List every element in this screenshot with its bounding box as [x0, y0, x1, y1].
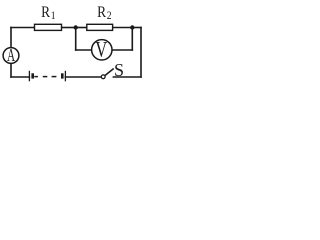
- battery dashed middle (omitted cells): [34, 76, 56, 78]
- svg-text:A: A: [7, 46, 15, 65]
- svg-text:S: S: [114, 60, 124, 80]
- wire left vertical upper: [10, 28, 12, 48]
- label S: [114, 60, 124, 80]
- battery cell right long plate: [64, 71, 66, 82]
- battery cell left short plate: [31, 73, 34, 78]
- wire voltmeter branch left vertical: [75, 28, 77, 51]
- ammeter A1: [3, 46, 19, 65]
- wire left vertical lower: [10, 63, 12, 77]
- node A (left junction dot): [74, 25, 78, 29]
- wire voltmeter branch right vertical: [131, 28, 133, 51]
- wire bottom-right segment: [113, 76, 141, 78]
- switch S lever: [105, 69, 114, 76]
- wire voltmeter branch left horizontal: [76, 49, 92, 51]
- wire node A to R2: [76, 27, 87, 29]
- wire R2 to node B: [113, 27, 133, 29]
- wire switch to battery: [65, 76, 101, 78]
- wire R1 to node A: [62, 27, 76, 29]
- wire voltmeter branch right horizontal: [112, 49, 132, 51]
- battery cell right short plate: [61, 73, 64, 78]
- battery cell left long plate: [28, 71, 30, 82]
- label R1: [41, 4, 55, 22]
- wire right vertical: [140, 28, 142, 78]
- voltmeter V1: [92, 39, 112, 63]
- switch S pivot contact: [101, 75, 105, 79]
- label R2: [97, 4, 111, 22]
- resistor R2: [87, 24, 113, 30]
- svg-text:V: V: [95, 39, 107, 63]
- wire battery to bottom-left corner: [11, 76, 29, 78]
- resistor R1: [35, 24, 62, 30]
- node B (right junction dot): [130, 25, 134, 29]
- wire top-left segment: [11, 27, 35, 29]
- wire node B to top-right corner: [132, 27, 141, 29]
